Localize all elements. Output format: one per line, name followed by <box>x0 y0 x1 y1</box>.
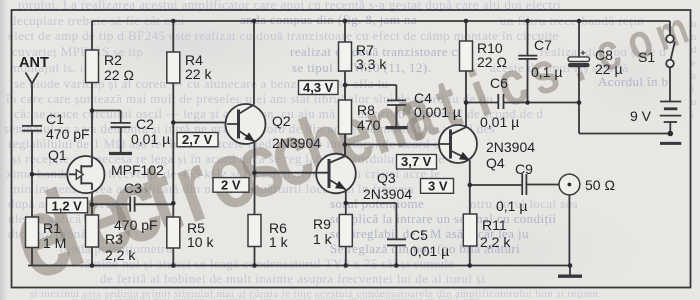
svg-text:R2: R2 <box>104 52 122 68</box>
svg-text:470: 470 <box>357 117 381 133</box>
svg-text:22 k: 22 k <box>185 66 212 82</box>
svg-text:C2: C2 <box>136 116 154 132</box>
svg-text:2 V: 2 V <box>221 178 241 193</box>
svg-text:0,01 µ: 0,01 µ <box>131 131 170 147</box>
svg-text:2N3904: 2N3904 <box>272 135 321 151</box>
svg-text:0,001 µ: 0,001 µ <box>414 104 461 120</box>
svg-text:3 V: 3 V <box>428 179 448 194</box>
svg-text:Q4: Q4 <box>486 155 505 171</box>
svg-text:2,2 k: 2,2 k <box>105 247 136 263</box>
svg-text:C6: C6 <box>490 75 508 91</box>
svg-text:ANT: ANT <box>19 55 49 71</box>
svg-text:2,2 k: 2,2 k <box>480 234 511 250</box>
svg-text:MPF102: MPF102 <box>111 162 164 178</box>
svg-text:R3: R3 <box>105 231 123 247</box>
svg-text:0,01 µ: 0,01 µ <box>410 243 449 259</box>
svg-text:C1: C1 <box>46 111 64 127</box>
svg-text:0,1 µ: 0,1 µ <box>496 198 527 214</box>
svg-text:R1: R1 <box>43 220 61 236</box>
svg-text:S1: S1 <box>638 49 655 65</box>
svg-text:1 k: 1 k <box>269 234 289 250</box>
svg-text:C3: C3 <box>124 180 142 196</box>
svg-text:C7: C7 <box>534 37 552 53</box>
svg-text:R11: R11 <box>482 217 507 233</box>
svg-text:2,7 V: 2,7 V <box>182 132 213 147</box>
svg-text:R9: R9 <box>313 216 331 232</box>
svg-text:3,7 V: 3,7 V <box>401 154 432 169</box>
svg-text:22 Ω: 22 Ω <box>477 54 507 70</box>
svg-text:C9: C9 <box>515 161 533 177</box>
svg-text:22 µ: 22 µ <box>595 61 623 77</box>
svg-text:9 V: 9 V <box>630 108 652 124</box>
svg-text:Q3: Q3 <box>377 170 396 186</box>
svg-text:Q1: Q1 <box>48 147 67 163</box>
svg-text:50 Ω: 50 Ω <box>585 177 615 193</box>
svg-text:470 pF: 470 pF <box>46 126 90 142</box>
svg-text:22 Ω: 22 Ω <box>104 67 134 83</box>
svg-text:Q2: Q2 <box>272 113 291 129</box>
svg-text:3,3 k: 3,3 k <box>356 56 387 72</box>
svg-text:1 M: 1 M <box>43 235 66 251</box>
svg-text:R8: R8 <box>357 102 375 118</box>
svg-text:C5: C5 <box>410 227 428 243</box>
svg-text:2N3904: 2N3904 <box>486 139 535 155</box>
svg-text:2N3904: 2N3904 <box>363 186 412 202</box>
svg-text:0,1 µ: 0,1 µ <box>531 64 562 80</box>
svg-text:10 k: 10 k <box>187 234 214 250</box>
svg-text:4,3 V: 4,3 V <box>303 80 334 95</box>
svg-text:1,2 V: 1,2 V <box>52 198 83 213</box>
svg-text:1 k: 1 k <box>313 231 333 247</box>
svg-text:0,01 µ: 0,01 µ <box>480 114 519 130</box>
